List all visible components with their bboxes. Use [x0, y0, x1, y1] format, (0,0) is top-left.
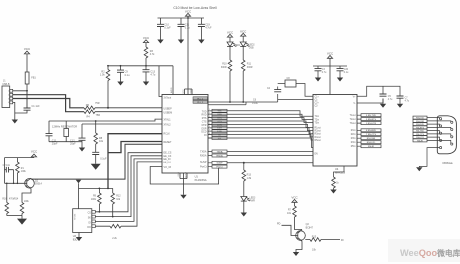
svg-text:S9014: S9014 — [35, 183, 43, 186]
wire A PLL net — [208, 84, 314, 103]
resistor R15 — [310, 235, 321, 251]
capacitor C19 — [198, 18, 212, 40]
svg-text:4.7u: 4.7u — [150, 74, 155, 77]
svg-text:AGND: AGND — [184, 171, 187, 177]
resistor R8 — [94, 121, 104, 152]
svg-text:V-: V- — [353, 103, 355, 105]
wire PLL row2 — [208, 102, 246, 105]
junction LED nets — [229, 101, 231, 103]
svg-text:2.2k: 2.2k — [112, 237, 117, 240]
wire V+ net — [357, 86, 400, 103]
svg-text:11: 11 — [209, 119, 211, 121]
svg-text:10k: 10k — [99, 140, 104, 143]
svg-text:VCC: VCC — [240, 29, 247, 33]
svg-text:4.7uF: 4.7uF — [205, 27, 212, 30]
capacitor C7 — [397, 96, 410, 104]
connector J1 USB — [2, 80, 13, 108]
resistor R13 — [242, 170, 252, 197]
svg-text:EN: EN — [315, 154, 319, 156]
wire XTAL1 net — [49, 119, 162, 121]
svg-text:RS-DCD: RS-DCD — [367, 142, 376, 144]
junction R8 top — [95, 120, 97, 122]
power VCC3 USB — [24, 47, 31, 72]
svg-text:RS-DSR: RS-DSR — [416, 121, 424, 123]
svg-text:6: 6 — [209, 126, 210, 128]
ground C13 — [143, 82, 149, 86]
junction node A — [145, 65, 147, 67]
ground C19 — [198, 40, 204, 44]
wire D+ to U1 — [95, 107, 162, 109]
ground C10 — [157, 40, 163, 44]
junction base — [13, 183, 15, 185]
svg-text:C2-: C2- — [315, 106, 319, 108]
svg-text:0.1uF: 0.1uF — [252, 102, 259, 105]
svg-text:3: 3 — [8, 98, 9, 100]
ground C14 big — [91, 164, 101, 170]
svg-text:0.1u: 0.1u — [344, 72, 349, 74]
wire SUSP to U4 EN — [227, 162, 313, 164]
svg-text:4.7u: 4.7u — [405, 101, 410, 103]
svg-text:1: 1 — [209, 109, 210, 111]
svg-text:RS-RTS: RS-RTS — [416, 127, 424, 129]
capacitor C11 — [178, 18, 191, 40]
svg-text:DI: DI — [88, 222, 91, 224]
ground LED3 — [241, 213, 247, 217]
svg-text:PLL_1: PLL_1 — [197, 98, 204, 100]
svg-text:0.1u: 0.1u — [185, 27, 190, 30]
svg-text:AVDD: AVDD — [170, 87, 173, 93]
svg-text:VCC: VCC — [227, 30, 234, 34]
capacitor C9 — [117, 65, 130, 82]
svg-text:VCC: VCC — [31, 150, 38, 154]
wire RESET branch net — [108, 142, 162, 153]
svg-text:RI: RI — [204, 134, 207, 137]
svg-text:C2 10n: C2 10n — [3, 165, 11, 167]
wires DB9 labels to pins — [427, 118, 451, 144]
wire Q1 collector to RESET — [31, 144, 162, 179]
resistor R10 — [221, 60, 232, 102]
svg-text:100k: 100k — [91, 198, 97, 201]
svg-text:VCC: VCC — [183, 89, 185, 94]
resistor R1 — [16, 158, 27, 184]
svg-text:PWR: PWR — [250, 201, 256, 203]
svg-text:R15: R15 — [312, 235, 317, 238]
diode LED1 — [227, 42, 241, 60]
resistor R14 — [14, 198, 30, 215]
wire TXDA to U4 — [227, 151, 313, 153]
capacitor C1 — [15, 105, 40, 113]
junction pullup — [99, 188, 101, 190]
svg-text:75R: 75R — [95, 102, 100, 105]
svg-text:75R: 75R — [96, 114, 101, 117]
svg-text:20pF: 20pF — [70, 142, 76, 145]
node PLL box 1 — [193, 97, 208, 101]
svg-text:USB: USB — [249, 48, 254, 50]
svg-text:TXDA: TXDA — [200, 151, 207, 154]
wire pullup node — [79, 188, 113, 208]
node PLL box 2 — [193, 100, 208, 104]
resistor R5 — [84, 102, 100, 110]
svg-text:R4out: R4out — [315, 136, 321, 139]
power VCC LED2 — [240, 29, 247, 42]
U1 PwrCt pin box — [212, 165, 227, 168]
svg-text:T3out: T3out — [350, 122, 356, 125]
svg-text:T2out: T2out — [350, 118, 356, 121]
svg-text:VO_33: VO_33 — [164, 166, 172, 169]
wire AVDD node — [108, 66, 173, 97]
transistor Q2 BC847 — [296, 223, 314, 242]
resistor R17 — [110, 224, 121, 240]
junction D+ pullup — [107, 107, 109, 109]
svg-text:C1+: C1+ — [315, 96, 320, 98]
wire D- — [13, 95, 84, 112]
ground C11 — [178, 40, 184, 44]
wire U4 vcc caps — [313, 65, 347, 67]
capacitor C11b — [46, 121, 58, 145]
ground U3 — [76, 233, 82, 242]
svg-text:5 RS-TXD: 5 RS-TXD — [366, 115, 376, 117]
resistor R6 — [332, 177, 340, 190]
svg-text:LED1: LED1 — [235, 45, 241, 47]
svg-text:20pF: 20pF — [52, 142, 58, 145]
ground U4 — [330, 190, 336, 194]
svg-text:0.1uF: 0.1uF — [100, 158, 107, 161]
capacitor C3 — [315, 66, 327, 78]
svg-text:12MHz RESONATOR: 12MHz RESONATOR — [52, 125, 77, 129]
svg-text:VCC: VCC — [143, 36, 150, 40]
svg-text:5: 5 — [209, 113, 210, 115]
power VCC main — [185, 10, 192, 18]
svg-text:USBDP: USBDP — [164, 107, 173, 110]
U1 right lower pin boxes — [208, 150, 227, 164]
U1 right pin boxes TXD..RI — [208, 109, 227, 139]
svg-text:C5: C5 — [388, 96, 392, 98]
svg-text:4.7u: 4.7u — [388, 99, 393, 101]
capacitor C5 — [380, 86, 393, 104]
transistor Q1 S9014 — [25, 178, 43, 189]
svg-text:C1 1nF: C1 1nF — [32, 105, 41, 108]
resistor R12 — [111, 188, 121, 216]
op chip U1 PL2303 — [162, 95, 208, 182]
svg-text:300R: 300R — [247, 66, 253, 69]
svg-text:DSR: DSR — [217, 128, 222, 130]
svg-text:RXDA: RXDA — [216, 154, 223, 157]
svg-text:DO: DO — [87, 227, 91, 229]
U4 right net labels T1out — [357, 114, 381, 148]
ground USB — [12, 120, 18, 124]
U1 top pin labels — [170, 87, 192, 94]
wire VCC riser to U1 — [185, 18, 193, 95]
power VCC U4 — [327, 52, 334, 95]
svg-text:DB9Male: DB9Male — [443, 162, 454, 165]
svg-text:4.7u: 4.7u — [322, 72, 327, 74]
resistor R9 — [91, 188, 101, 211]
ground C5 — [380, 104, 386, 108]
wire resonator bottom — [49, 141, 82, 143]
svg-text:XTAL2: XTAL2 — [164, 124, 172, 127]
wire VBUS — [13, 91, 27, 108]
svg-text:10k: 10k — [312, 249, 317, 252]
svg-text:C1-: C1- — [315, 99, 319, 101]
svg-text:GND: GND — [178, 171, 180, 176]
svg-text:EE_DI: EE_DI — [164, 158, 171, 161]
svg-text:RS-RI: RS-RI — [417, 140, 423, 142]
wire Q2 out — [305, 239, 340, 241]
svg-text:8: 8 — [209, 133, 210, 135]
wire D- to U1 — [95, 111, 162, 113]
node PD label — [277, 223, 298, 236]
svg-text:100k: 100k — [24, 201, 30, 203]
wire EE_DO — [95, 162, 162, 226]
svg-text:10k: 10k — [116, 198, 121, 201]
resistor R4 — [84, 110, 100, 119]
junction R12 bottom — [112, 216, 114, 218]
svg-text:V+: V+ — [353, 96, 357, 98]
svg-text:7 RS-CTS: 7 RS-CTS — [366, 134, 377, 136]
svg-text:TXD: TXD — [217, 111, 222, 113]
svg-text:WeeQoo微电库: WeeQoo微电库 — [400, 248, 460, 258]
svg-text:R1in: R1in — [351, 130, 356, 132]
ferrite bead FB1 — [25, 72, 36, 91]
svg-text:FB1: FB1 — [31, 77, 36, 80]
svg-text:300R: 300R — [221, 66, 227, 69]
svg-text:R2out: R2out — [315, 130, 321, 133]
ground C3 — [315, 78, 321, 82]
svg-text:PLL_2: PLL_2 — [197, 102, 204, 104]
svg-text:2: 2 — [209, 123, 210, 125]
wire XTAL2 net — [82, 123, 162, 125]
label C6 — [252, 99, 259, 105]
svg-text:RS-RI: RS-RI — [368, 146, 374, 148]
diode LED2 — [240, 42, 255, 60]
svg-text:DCD: DCD — [217, 131, 222, 133]
svg-text:DTR: DTR — [217, 124, 222, 126]
svg-text:1 RS-DTR: 1 RS-DTR — [366, 123, 377, 125]
pin numbers U1 right — [209, 109, 211, 135]
svg-text:R2in: R2in — [351, 134, 356, 136]
svg-text:VCC: VCC — [185, 10, 192, 14]
svg-text:RS-DSR: RS-DSR — [367, 138, 376, 140]
svg-text:VCC: VCC — [291, 196, 298, 200]
resistor R7 — [287, 206, 302, 233]
wire Q1 top rail — [5, 157, 35, 159]
svg-text:T1in: T1in — [315, 116, 320, 118]
capacitor C20 — [337, 66, 349, 78]
diode LED3 — [241, 197, 256, 213]
svg-text:C10 Must be Low-Avss Shell: C10 Must be Low-Avss Shell — [173, 6, 217, 10]
wire RXDA to U4 — [227, 155, 313, 157]
svg-text:4 RS-RXD: 4 RS-RXD — [366, 130, 377, 132]
svg-text:RS-RXD: RS-RXD — [416, 124, 424, 126]
svg-text:1.5k: 1.5k — [100, 74, 105, 77]
power VCC LED1 — [227, 30, 234, 42]
wire VO_33 loop — [150, 167, 218, 185]
ground DB9 — [416, 167, 422, 171]
node VCC tap 93C46 — [76, 180, 82, 189]
svg-text:0.1uF: 0.1uF — [164, 27, 171, 30]
U1 bottom pins — [178, 171, 187, 194]
ground C7 — [397, 104, 403, 108]
svg-text:1.8k: 1.8k — [247, 177, 252, 180]
svg-text:R16: R16 — [2, 198, 7, 200]
svg-text:SUSP: SUSP — [200, 161, 207, 164]
resistor R16 — [2, 183, 14, 215]
U1 right pin labels — [200, 110, 207, 168]
svg-text:PD: PD — [277, 223, 281, 226]
chip U4 MAX213 — [313, 95, 357, 175]
svg-text:EE_DO: EE_DO — [164, 162, 172, 164]
svg-text:VCC: VCC — [24, 47, 31, 51]
svg-text:U4: U4 — [335, 167, 339, 171]
svg-text:RS-CTS: RS-CTS — [416, 134, 424, 136]
svg-text:RI: RI — [341, 239, 344, 242]
ground C9 — [117, 82, 123, 86]
power VCC Q2 — [291, 196, 298, 206]
svg-text:SK: SK — [88, 218, 92, 220]
svg-text:3: 3 — [209, 116, 210, 118]
svg-text:9: 9 — [209, 130, 210, 132]
svg-text:3V3out: 3V3out — [164, 96, 172, 99]
resistor R3 — [144, 47, 155, 66]
resistor R2 — [100, 66, 110, 108]
U4 right pin labels — [350, 96, 357, 148]
junction node R2 top — [107, 65, 109, 67]
wire EE_DI — [95, 159, 162, 222]
wire D+ — [13, 99, 84, 108]
wire EE_CK — [95, 156, 162, 217]
capacitor C14 — [92, 152, 107, 164]
U4 left pin labels — [315, 96, 321, 155]
svg-text:BC847: BC847 — [306, 226, 314, 229]
ground Q2 — [293, 252, 299, 256]
svg-text:C4: C4 — [267, 87, 271, 90]
svg-text:RS-DCD: RS-DCD — [416, 118, 425, 120]
svg-text:93C46: 93C46 — [73, 214, 75, 221]
svg-text:R14: R14 — [14, 198, 19, 200]
svg-text:R5out: R5out — [315, 139, 321, 142]
svg-text:C2+: C2+ — [315, 103, 320, 105]
svg-text:10k: 10k — [287, 212, 292, 215]
svg-text:100k: 100k — [21, 171, 27, 173]
svg-text:0.1u: 0.1u — [125, 74, 130, 77]
svg-text:VCC: VCC — [327, 52, 334, 56]
svg-text:RESET: RESET — [164, 141, 173, 144]
svg-text:R5: R5 — [86, 104, 90, 107]
svg-text:4.7k: 4.7k — [150, 53, 155, 56]
capacitor C8 box — [285, 77, 296, 87]
wire emitter gnd rail — [7, 215, 22, 217]
svg-text:RTS: RTS — [217, 118, 222, 120]
ground C20 — [337, 78, 343, 82]
svg-text:LED2: LED2 — [249, 44, 255, 46]
svg-text:R3out: R3out — [315, 133, 321, 136]
wire U1 right rows — [208, 111, 227, 138]
svg-text:R1out: R1out — [315, 126, 321, 129]
DB9 pins — [440, 118, 453, 149]
svg-text:C20: C20 — [344, 69, 349, 71]
svg-text:T1out: T1out — [350, 114, 356, 117]
ground resonator — [79, 142, 85, 152]
svg-text:R5in: R5in — [351, 146, 356, 148]
U1 left pin labels — [164, 96, 173, 169]
svg-text:RXD: RXD — [217, 114, 222, 116]
svg-text:LED3: LED3 — [250, 197, 256, 199]
svg-text:CTS: CTS — [217, 121, 222, 123]
ground Q1 — [17, 216, 27, 225]
svg-text:PwrCt: PwrCt — [200, 165, 207, 168]
svg-text:4: 4 — [8, 102, 9, 104]
wire EE_CS — [95, 153, 162, 212]
ground U1 — [180, 195, 186, 199]
svg-text:TXDA: TXDA — [217, 150, 223, 153]
svg-text:RXDA: RXDA — [200, 155, 207, 158]
wire left branch — [4, 158, 6, 184]
wire Q2 emitter — [296, 241, 302, 252]
junction VBUS — [26, 90, 28, 92]
wire R13 drop — [243, 163, 245, 170]
wire RCLK thick net — [108, 134, 162, 189]
connector J2 DB9 — [437, 116, 456, 154]
U4 bottom gnd pin — [334, 166, 345, 177]
svg-text:RS-DTR: RS-DTR — [416, 137, 424, 139]
wires U1 to U4 bundle — [227, 111, 313, 148]
svg-text:RCLK: RCLK — [164, 133, 171, 136]
svg-text:C3: C3 — [322, 69, 326, 71]
DB9 net label boxes — [413, 116, 427, 142]
svg-text:SUSP: SUSP — [217, 163, 223, 165]
wire USB gnd pin — [13, 102, 15, 119]
svg-text:1: 1 — [8, 91, 9, 93]
watermark weeqoo — [388, 239, 460, 262]
junction R9 bottom — [99, 211, 101, 213]
svg-text:PL2303SA: PL2303SA — [195, 179, 207, 182]
svg-text:XTAL1: XTAL1 — [164, 119, 172, 122]
svg-text:3 RS-RTS: 3 RS-RTS — [366, 119, 376, 121]
svg-text:R4in: R4in — [351, 142, 356, 144]
svg-text:R1: R1 — [21, 168, 25, 170]
svg-text:T2in: T2in — [315, 119, 320, 121]
capacitor C10 — [157, 18, 171, 40]
junction R13 tap — [243, 162, 245, 164]
svg-text:R4: R4 — [87, 115, 91, 118]
eeprom U3 93C46 — [73, 209, 96, 242]
wire cap bus — [158, 17, 205, 19]
svg-text:USBDM: USBDM — [164, 111, 173, 114]
svg-text:R3in: R3in — [351, 138, 356, 140]
junction VCC bus — [187, 17, 189, 19]
svg-text:C7: C7 — [405, 97, 409, 99]
capacitor C12 — [70, 124, 86, 145]
capacitor C2 — [3, 165, 14, 183]
resistor R11 — [241, 60, 252, 102]
svg-text:2: 2 — [8, 95, 9, 97]
svg-text:CS: CS — [88, 213, 92, 215]
svg-text:RS-TXD: RS-TXD — [416, 131, 424, 133]
wire Q1 emitter — [22, 189, 31, 203]
crystal Y1 — [64, 121, 69, 142]
capacitor C13 — [143, 66, 156, 82]
capacitor C4 — [267, 87, 281, 92]
power VCC Q1 — [31, 150, 38, 158]
junction R16 top — [6, 183, 8, 185]
svg-text:VDD: VDD — [190, 89, 192, 94]
svg-text:T3in: T3in — [315, 122, 320, 124]
svg-text:1k: 1k — [336, 183, 339, 185]
wire PwrCt stub — [208, 166, 212, 168]
power VCC2 — [143, 36, 150, 47]
wire Q1 base — [5, 182, 27, 184]
wire DB9 pin5 gnd — [419, 148, 439, 168]
